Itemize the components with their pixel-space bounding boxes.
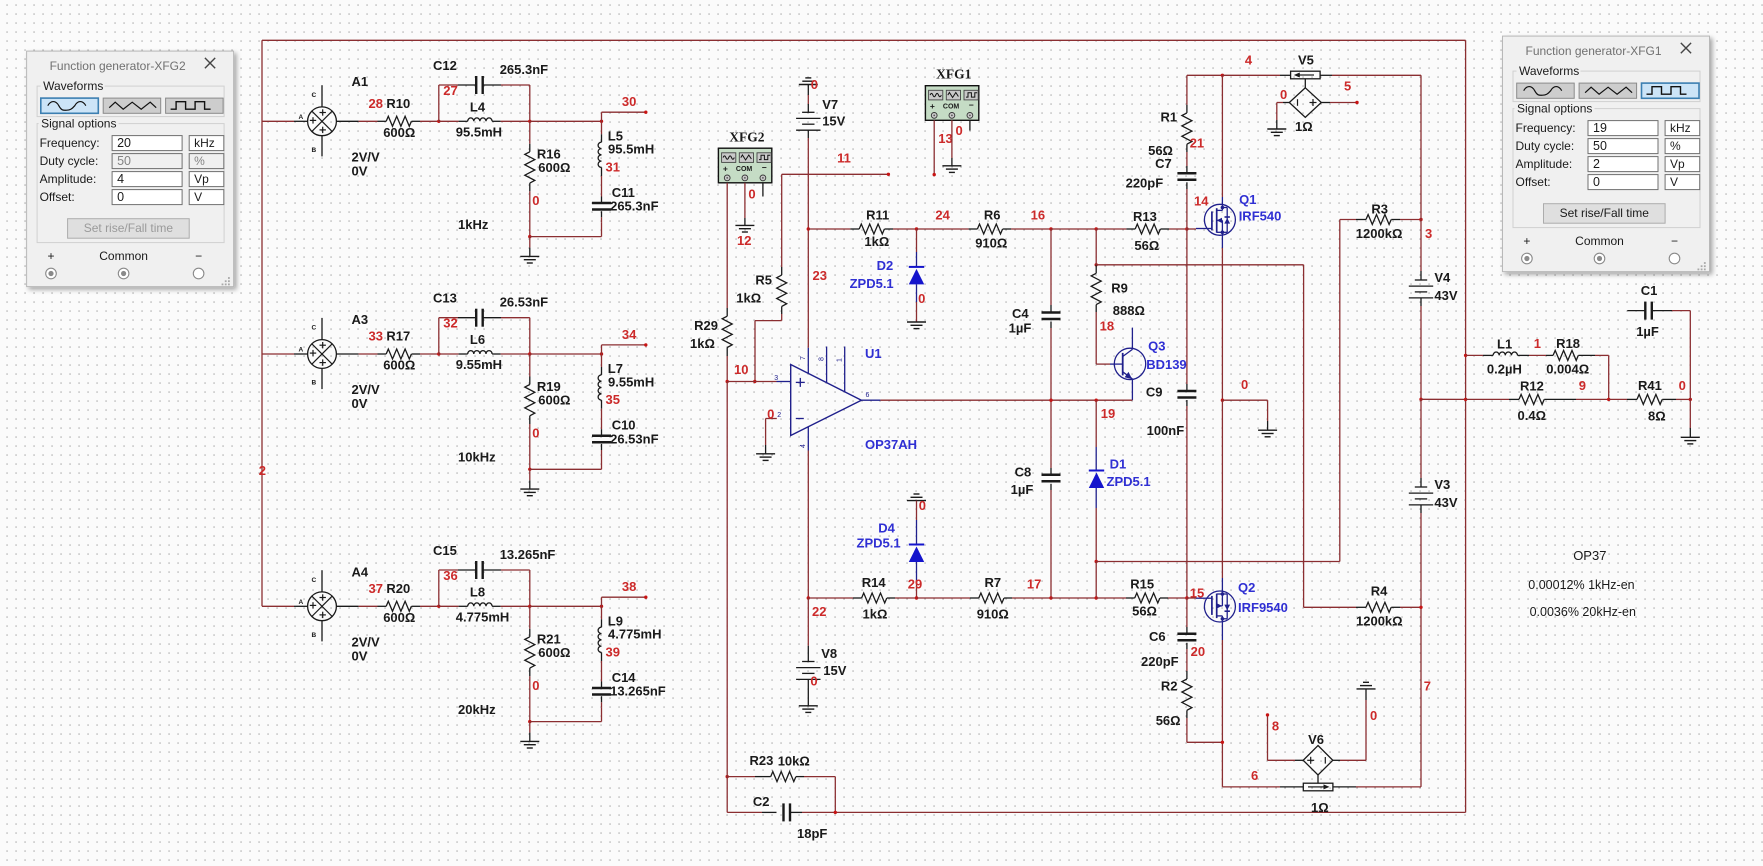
resistor R6 910ohm — [917, 228, 969, 230]
resistor R3 1200kohm — [1340, 219, 1356, 221]
svg-text:19: 19 — [1593, 121, 1607, 135]
capacitor C8 1uF — [1050, 400, 1052, 468]
svg-text:18: 18 — [1100, 318, 1114, 333]
svg-text:600Ω: 600Ω — [383, 125, 415, 140]
svg-text:28: 28 — [369, 96, 383, 111]
svg-text:XFG2: XFG2 — [729, 130, 764, 145]
svg-text:0V: 0V — [352, 163, 368, 178]
svg-text:R2: R2 — [1161, 679, 1178, 694]
svg-text:6: 6 — [866, 392, 870, 399]
svg-text:22: 22 — [812, 604, 826, 619]
ground row A3 — [528, 468, 531, 471]
multiplier A4 — [262, 605, 294, 607]
inductor L5 95.5mH — [601, 121, 603, 134]
current sense box V6 1ohm — [1303, 783, 1333, 791]
svg-text:600Ω: 600Ω — [383, 358, 415, 373]
node R23 — [726, 775, 729, 778]
wire row bottom A1 — [530, 236, 602, 238]
svg-text:2: 2 — [777, 412, 781, 419]
wire row bottom A4 — [530, 721, 602, 723]
svg-text:0: 0 — [956, 123, 963, 138]
svg-text:B: B — [312, 380, 317, 387]
resistor R19 600ohm shunt — [529, 354, 531, 377]
ground V8 — [807, 687, 809, 706]
svg-text:888Ω: 888Ω — [1113, 303, 1145, 318]
svg-text:C14: C14 — [612, 670, 637, 685]
svg-text:23: 23 — [813, 268, 827, 283]
svg-text:%: % — [1670, 139, 1681, 153]
wire V6 minus to ground — [1333, 759, 1340, 761]
svg-text:0: 0 — [919, 498, 926, 513]
svg-text:56Ω: 56Ω — [1156, 713, 1181, 728]
svg-text:1kΩ: 1kΩ — [863, 606, 888, 621]
svg-text:R17: R17 — [386, 329, 410, 344]
svg-text:R12: R12 — [1520, 379, 1544, 394]
svg-text:95.5mH: 95.5mH — [456, 124, 502, 139]
svg-text:0: 0 — [811, 77, 818, 92]
svg-text:1µF: 1µF — [1009, 320, 1032, 335]
multiplier A3 — [262, 353, 294, 355]
resistor R10 600ohm — [378, 120, 387, 122]
inductor L4 95.5mH — [439, 120, 459, 122]
svg-text:6: 6 — [1251, 768, 1258, 783]
battery V7 15V — [807, 85, 809, 96]
capacitor C2 18pF — [726, 777, 728, 813]
wire XFG1 minus stub — [969, 120, 971, 130]
svg-text:9.55mH: 9.55mH — [456, 357, 502, 372]
node after L6 — [528, 352, 531, 355]
resistor R41 8ohm — [1609, 398, 1627, 400]
svg-text:B: B — [312, 147, 317, 154]
capacitor C14 13.265nF — [601, 682, 603, 689]
svg-text:C9: C9 — [1146, 384, 1163, 399]
svg-text:1200kΩ: 1200kΩ — [1356, 226, 1403, 241]
svg-text:ZPD5.1: ZPD5.1 — [850, 276, 894, 291]
wire R18 down to node 9 — [1608, 355, 1610, 399]
svg-text:Duty cycle:: Duty cycle: — [1516, 139, 1575, 153]
svg-text:0.004Ω: 0.004Ω — [1546, 362, 1589, 377]
svg-text:R4: R4 — [1371, 584, 1388, 599]
ground opamp pin2 — [756, 453, 775, 455]
node after L8 — [528, 605, 531, 608]
svg-text:Common: Common — [1575, 234, 1624, 248]
node 14 — [1185, 227, 1188, 230]
svg-text:10kΩ: 10kΩ — [778, 754, 810, 769]
svg-text:OP37AH: OP37AH — [865, 437, 917, 452]
svg-text:L1: L1 — [1497, 337, 1512, 352]
svg-text:39: 39 — [606, 644, 620, 659]
node 10 — [726, 380, 729, 383]
svg-text:4: 4 — [117, 172, 124, 186]
svg-text:R29: R29 — [694, 318, 718, 333]
svg-text:33: 33 — [369, 329, 383, 344]
inductor L9 4.775mH — [601, 606, 603, 619]
battery V4 43V — [1420, 220, 1422, 272]
resistor R17 600ohm — [378, 353, 387, 355]
svg-text:0: 0 — [767, 407, 774, 422]
svg-text:Q1: Q1 — [1239, 192, 1256, 207]
svg-text:43V: 43V — [1434, 288, 1457, 303]
svg-text:R5: R5 — [755, 272, 772, 287]
svg-text:56Ω: 56Ω — [1132, 604, 1157, 619]
resistor R9 888ohm — [1095, 265, 1097, 274]
svg-text:50: 50 — [1593, 139, 1607, 153]
wire A4 output — [337, 605, 359, 607]
wire net19 opamp output — [880, 399, 1132, 401]
resistor R16 600ohm shunt — [529, 121, 531, 144]
svg-text:35: 35 — [606, 392, 620, 407]
resistor R29 1kohm — [726, 308, 728, 316]
svg-text:0: 0 — [918, 291, 925, 306]
svg-text:U1: U1 — [865, 346, 882, 361]
diode D4 ZPD5.1 — [916, 501, 918, 520]
svg-text:R6: R6 — [984, 208, 1001, 223]
svg-text:2V/V: 2V/V — [352, 149, 381, 164]
resistor R13 56ohm — [1096, 228, 1126, 230]
svg-text:2: 2 — [1593, 157, 1600, 171]
svg-text:0: 0 — [532, 426, 539, 441]
svg-text:15V: 15V — [822, 114, 845, 129]
dialog Function generator-XFG1 — [1503, 36, 1710, 272]
inductor L6 9.55mH — [439, 353, 459, 355]
svg-text:BD139: BD139 — [1146, 357, 1186, 372]
svg-text:Signal options: Signal options — [1517, 102, 1592, 116]
svg-text:0: 0 — [1241, 377, 1248, 392]
svg-text:kHz: kHz — [1670, 121, 1691, 135]
node L1 tap — [1464, 354, 1467, 357]
current sense box V5 1ohm — [1291, 71, 1321, 79]
svg-text:24: 24 — [935, 208, 950, 223]
svg-text:−: − — [195, 249, 202, 263]
capacitor C11 265.3nF — [601, 197, 603, 204]
svg-text:0: 0 — [810, 673, 817, 688]
node 29 — [915, 596, 918, 599]
svg-text:0.2µH: 0.2µH — [1487, 362, 1522, 377]
wire to R3 via vertical — [1096, 561, 1340, 563]
svg-text:Set rise/Fall time: Set rise/Fall time — [1560, 206, 1650, 220]
svg-text:XFG1: XFG1 — [936, 67, 971, 82]
resistor R20 600ohm — [378, 605, 387, 607]
svg-text:10kHz: 10kHz — [458, 450, 496, 465]
svg-text:Frequency:: Frequency: — [1516, 121, 1576, 135]
svg-text:13.265nF: 13.265nF — [500, 547, 556, 562]
node 36 — [437, 605, 440, 608]
ground row A4 — [528, 720, 531, 723]
svg-text:0: 0 — [1370, 708, 1377, 723]
ground D2 — [907, 321, 926, 323]
svg-text:C: C — [312, 325, 317, 332]
svg-text:20: 20 — [1191, 644, 1205, 659]
wire XFG1 COM to ground — [951, 120, 953, 158]
svg-text:56Ω: 56Ω — [1134, 238, 1159, 253]
wire net to R4 upper — [1096, 264, 1303, 266]
svg-text:C12: C12 — [433, 58, 457, 73]
svg-text:4: 4 — [800, 444, 807, 448]
svg-text:R14: R14 — [862, 575, 887, 590]
node net23-R11 junction — [807, 227, 810, 230]
svg-text:C8: C8 — [1015, 465, 1032, 480]
svg-text:13.265nF: 13.265nF — [610, 684, 666, 699]
svg-text:R10: R10 — [386, 96, 410, 111]
svg-text:1µF: 1µF — [1011, 482, 1034, 497]
svg-text:R11: R11 — [866, 208, 889, 223]
svg-text:220pF: 220pF — [1141, 654, 1179, 669]
ground Q1 source branch — [1258, 429, 1277, 431]
node 32 — [437, 352, 440, 355]
svg-text:A: A — [299, 347, 304, 354]
svg-text:C: C — [312, 92, 317, 99]
node 24 — [915, 227, 918, 230]
svg-text:Amplitude:: Amplitude: — [1516, 157, 1573, 171]
svg-text:14: 14 — [1194, 194, 1209, 209]
svg-text:0.00012% 1kHz-en: 0.00012% 1kHz-en — [1528, 578, 1634, 592]
svg-text:26.53nF: 26.53nF — [500, 295, 548, 310]
svg-text:600Ω: 600Ω — [538, 160, 570, 175]
svg-text:1Ω: 1Ω — [1295, 119, 1313, 134]
svg-text:0: 0 — [748, 187, 755, 202]
svg-text:1200kΩ: 1200kΩ — [1356, 613, 1403, 628]
svg-text:1kHz: 1kHz — [458, 217, 489, 232]
svg-text:Common: Common — [99, 249, 148, 263]
svg-text:3: 3 — [774, 375, 778, 382]
ground row A1 — [528, 235, 531, 238]
svg-text:20: 20 — [117, 136, 131, 150]
svg-text:11: 11 — [837, 150, 851, 165]
node 38 tap — [601, 597, 603, 606]
inductor L8 4.775mH — [439, 605, 459, 607]
svg-text:Offset:: Offset: — [40, 190, 75, 204]
svg-text:R18: R18 — [1556, 336, 1580, 351]
svg-text:21: 21 — [1190, 136, 1204, 151]
wire opamp pin2 to ground — [766, 418, 777, 420]
svg-text:265.3nF: 265.3nF — [500, 62, 548, 77]
svg-text:37: 37 — [369, 581, 383, 596]
svg-text:9: 9 — [1579, 378, 1586, 393]
wire R5 to node10 — [781, 314, 783, 321]
svg-text:IRF9540: IRF9540 — [1238, 600, 1288, 615]
svg-text:C6: C6 — [1149, 629, 1166, 644]
capacitor C13 26.53nF — [438, 318, 440, 354]
wire A3 output — [337, 353, 359, 355]
wire net7 V3 down — [1420, 607, 1422, 787]
svg-text:Signal options: Signal options — [41, 117, 116, 131]
svg-text:C15: C15 — [433, 543, 457, 558]
wire XFG2 plus to R29 — [726, 183, 728, 308]
ground D4 top — [914, 493, 920, 495]
capacitor C15 13.265nF — [438, 570, 440, 606]
svg-text:%: % — [194, 154, 205, 168]
svg-text:Set rise/Fall time: Set rise/Fall time — [84, 221, 174, 235]
wire net23 V7 to opamp pin7 — [807, 138, 809, 229]
wire A1 output — [337, 120, 359, 122]
svg-text:C2: C2 — [753, 794, 770, 809]
svg-text:4.775mH: 4.775mH — [608, 627, 661, 642]
svg-text:A1: A1 — [352, 74, 369, 89]
svg-text:V: V — [194, 190, 202, 204]
svg-text:V3: V3 — [1434, 477, 1450, 492]
svg-text:30: 30 — [622, 94, 636, 109]
svg-text:600Ω: 600Ω — [383, 610, 415, 625]
wire net13 XFG1 plus dangling — [933, 120, 935, 174]
svg-text:V7: V7 — [822, 97, 838, 112]
wire net4 bottom — [835, 811, 1465, 813]
source V6 diamond — [1303, 746, 1333, 776]
resistor R23 10kohm — [727, 776, 755, 778]
resistor R2 56ohm — [1186, 671, 1188, 679]
svg-text:+: + — [723, 164, 728, 174]
node 15 — [1185, 596, 1188, 599]
svg-text:D1: D1 — [1110, 457, 1127, 472]
svg-text:7: 7 — [1424, 679, 1431, 694]
svg-text:Q2: Q2 — [1238, 580, 1255, 595]
ground output — [1689, 399, 1691, 428]
node 34 tap — [601, 345, 603, 354]
svg-text:1: 1 — [1534, 336, 1541, 351]
svg-text:95.5mH: 95.5mH — [608, 142, 654, 157]
svg-text:V8: V8 — [821, 646, 837, 661]
svg-text:8: 8 — [1272, 719, 1279, 734]
wire 1ohm sense line — [1222, 786, 1280, 788]
svg-text:D2: D2 — [877, 258, 894, 273]
svg-text:R23: R23 — [750, 753, 774, 768]
svg-text:V6: V6 — [1308, 732, 1324, 747]
transistor Q2 IRF9540 — [1187, 597, 1196, 599]
svg-text:265.3nF: 265.3nF — [610, 199, 658, 214]
svg-text:43V: 43V — [1434, 495, 1457, 510]
multiplier A1 — [262, 120, 294, 122]
svg-text:R9: R9 — [1111, 280, 1128, 295]
svg-text:A: A — [299, 114, 304, 121]
svg-text:V4: V4 — [1434, 270, 1451, 285]
svg-text:−: − — [762, 163, 767, 173]
svg-text:Waveforms: Waveforms — [1519, 64, 1579, 78]
svg-text:Q3: Q3 — [1148, 339, 1165, 354]
resistor R15 56ohm — [1096, 597, 1126, 599]
wire net4 left vertical — [261, 40, 263, 606]
svg-text:C11: C11 — [612, 185, 635, 200]
svg-text:C1: C1 — [1641, 283, 1658, 298]
svg-text:0.0036% 20kHz-en: 0.0036% 20kHz-en — [1530, 605, 1636, 619]
svg-text:Amplitude:: Amplitude: — [40, 172, 97, 186]
svg-text:+: + — [930, 101, 935, 111]
svg-text:R7: R7 — [985, 575, 1002, 590]
op-amp U1 OP37AH — [777, 381, 791, 383]
svg-text:16: 16 — [1031, 208, 1045, 223]
svg-text:Function generator-XFG2: Function generator-XFG2 — [50, 59, 186, 73]
svg-text:C4: C4 — [1012, 306, 1029, 321]
svg-text:C: C — [312, 577, 317, 584]
ground XFG1 — [942, 165, 961, 167]
svg-text:34: 34 — [622, 327, 637, 342]
inductor L1 0.2uH — [1466, 354, 1483, 356]
node V4-V3 junction — [1419, 398, 1422, 401]
resistor R14 1kohm — [808, 597, 853, 599]
svg-text:Offset:: Offset: — [1516, 175, 1551, 189]
dialog Function generator-XFG2 — [27, 51, 234, 287]
svg-text:ZPD5.1: ZPD5.1 — [1107, 474, 1151, 489]
node R12 line start — [1464, 398, 1467, 401]
svg-text:Duty cycle:: Duty cycle: — [40, 154, 99, 168]
svg-text:15V: 15V — [823, 663, 846, 678]
svg-text:COM: COM — [736, 166, 753, 173]
svg-text:Frequency:: Frequency: — [40, 136, 100, 150]
svg-text:1: 1 — [836, 358, 843, 362]
svg-text:COM: COM — [943, 104, 960, 111]
svg-text:8Ω: 8Ω — [1648, 409, 1666, 424]
resistor R11 1kohm — [808, 228, 850, 230]
node 3 — [1419, 218, 1422, 221]
transistor Q1 IRF540 — [1187, 228, 1196, 230]
ground XFG2 — [735, 224, 754, 226]
wire opamp pin4 to V8 — [807, 451, 809, 599]
svg-text:V: V — [1670, 175, 1678, 189]
diode D1 ZPD5.1 — [1095, 400, 1097, 447]
svg-text:8: 8 — [818, 357, 825, 361]
svg-text:V5: V5 — [1298, 53, 1314, 68]
wire V5 left to ground — [1283, 102, 1289, 104]
svg-text:2V/V: 2V/V — [352, 382, 381, 397]
wire C9 column — [1186, 229, 1188, 384]
node 27 — [437, 120, 440, 123]
resistor R21 600ohm shunt — [529, 606, 531, 629]
svg-text:L4: L4 — [470, 99, 486, 114]
svg-text:C10: C10 — [612, 418, 636, 433]
wire net4 right vertical — [1465, 40, 1467, 812]
svg-text:0: 0 — [1679, 378, 1686, 393]
svg-text:1Ω: 1Ω — [1311, 800, 1329, 815]
svg-text:R41: R41 — [1638, 378, 1662, 393]
svg-text:+: + — [1523, 234, 1530, 248]
svg-text:Function generator-XFG1: Function generator-XFG1 — [1526, 44, 1662, 58]
capacitor C4 1uF — [1050, 229, 1052, 305]
transistor Q3 BD139 — [1114, 348, 1145, 379]
instrument icon XFG2 — [718, 148, 771, 183]
ground V7 top — [805, 77, 811, 79]
resistor R7 910ohm — [917, 597, 971, 599]
svg-text:2: 2 — [259, 463, 266, 478]
svg-text:0: 0 — [1593, 175, 1600, 189]
svg-text:R20: R20 — [386, 581, 410, 596]
node net7 left — [1095, 560, 1098, 563]
svg-text:0: 0 — [532, 193, 539, 208]
inductor L7 9.55mH — [601, 354, 603, 367]
node after L4 — [528, 120, 531, 123]
svg-text:10: 10 — [734, 362, 748, 377]
svg-text:IRF540: IRF540 — [1239, 209, 1282, 224]
svg-text:7: 7 — [800, 356, 807, 360]
svg-text:1kΩ: 1kΩ — [864, 234, 889, 249]
svg-text:1kΩ: 1kΩ — [736, 291, 761, 306]
capacitor C12 265.3nF — [438, 85, 440, 121]
capacitor C10 26.53nF — [601, 429, 603, 436]
svg-text:3: 3 — [1425, 226, 1432, 241]
svg-text:Vp: Vp — [1670, 157, 1685, 171]
svg-text:1µF: 1µF — [1636, 324, 1659, 339]
svg-text:1kΩ: 1kΩ — [690, 336, 715, 351]
wire row bottom A3 — [530, 468, 602, 470]
svg-text:0: 0 — [532, 678, 539, 693]
svg-text:−: − — [969, 100, 974, 110]
svg-text:12: 12 — [737, 233, 751, 248]
capacitor C6 220pF — [1186, 598, 1188, 627]
svg-text:17: 17 — [1027, 576, 1041, 591]
svg-text:19: 19 — [1101, 406, 1115, 421]
svg-text:26.53nF: 26.53nF — [610, 431, 658, 446]
svg-text:A4: A4 — [352, 564, 369, 579]
node 16 — [1049, 227, 1052, 230]
battery V8 15V — [807, 598, 809, 646]
svg-text:0.4Ω: 0.4Ω — [1518, 408, 1547, 423]
